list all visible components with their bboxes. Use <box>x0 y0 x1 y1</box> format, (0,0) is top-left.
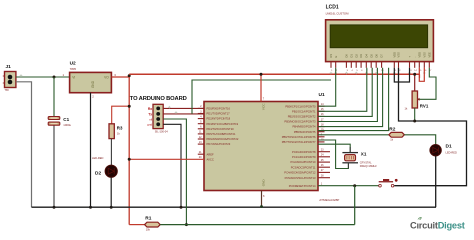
CircuitDigest logo <box>410 217 465 231</box>
resistor R2 <box>389 132 405 141</box>
wire bottom green line <box>160 224 355 226</box>
svg-text:LED-RED: LED-RED <box>92 156 104 160</box>
svg-text:AREF: AREF <box>207 152 215 156</box>
svg-text:C1: C1 <box>63 117 69 122</box>
svg-text:D1: D1 <box>349 54 353 58</box>
svg-text:PB6/TOSC1/XTAL1/PCINT6: PB6/TOSC1/XTAL1/PCINT6 <box>282 135 316 139</box>
svg-text:TBI: TBI <box>5 88 9 92</box>
wire U2 ground pin <box>90 93 92 208</box>
svg-text:FREQ=16MHz: FREQ=16MHz <box>360 164 378 168</box>
svg-text:VDD: VDD <box>417 52 421 58</box>
svg-text:PB7/TOSC2/XTAL2/PCINT7: PB7/TOSC2/XTAL2/PCINT7 <box>282 140 316 144</box>
svg-text:GND: GND <box>261 179 265 187</box>
svg-text:PD3/INT1/OC2B/PCINT19: PD3/INT1/OC2B/PCINT19 <box>207 122 239 126</box>
svg-text:J1: J1 <box>6 64 12 70</box>
svg-text:U1: U1 <box>319 92 325 98</box>
wire LCD VSS run <box>192 80 331 114</box>
LCD1 screen <box>330 25 427 48</box>
LCD pin stubs <box>330 62 332 68</box>
node bus junction x129 <box>128 74 131 77</box>
node D2 on bus <box>110 206 113 209</box>
svg-text:VSS: VSS <box>397 52 401 57</box>
plus ticks on bus <box>330 72 333 74</box>
regulator U2 <box>70 72 112 92</box>
svg-text:PB1/OC1A/PCINT1: PB1/OC1A/PCINT1 <box>292 109 316 113</box>
wire C1 column <box>53 77 55 207</box>
node U2 gnd on bus <box>89 206 92 209</box>
svg-text:VO: VO <box>104 76 109 80</box>
svg-text:10k: 10k <box>146 228 151 232</box>
svg-text:nil: nil <box>149 117 152 121</box>
wire LCD D5 to PB2 <box>318 68 372 117</box>
svg-text:TO ARDUINO BOARD: TO ARDUINO BOARD <box>130 96 187 102</box>
svg-text:PC1/ADC1/PCINT9: PC1/ADC1/PCINT9 <box>292 155 316 159</box>
svg-text:LCD1: LCD1 <box>326 5 339 11</box>
wire LCD RW loop <box>394 68 409 82</box>
svg-text:SIL-100-04: SIL-100-04 <box>155 130 168 134</box>
svg-text:CRYSTAL: CRYSTAL <box>360 160 372 164</box>
node VCC on bus <box>260 73 263 76</box>
LED D1 labels <box>446 144 458 155</box>
svg-text:PD5/T1/OC0B/PCINT21: PD5/T1/OC0B/PCINT21 <box>207 132 236 136</box>
wire rail to R1 <box>129 224 144 226</box>
svg-text:D2: D2 <box>95 171 101 177</box>
wire button to bottom line <box>354 186 356 225</box>
svg-text:R2: R2 <box>389 126 395 132</box>
wire LCD RS to PB5 <box>318 68 389 131</box>
wire LCD D6 to PB3 <box>318 68 377 122</box>
wire R3 branch <box>112 106 130 124</box>
capacitor C1 <box>48 117 71 128</box>
wire R2 to D1 <box>404 135 435 145</box>
svg-text:PD4/T0/XCK/PCINT20: PD4/T0/XCK/PCINT20 <box>207 127 235 131</box>
svg-text:1000u: 1000u <box>63 123 71 127</box>
svg-text:PC0/ADC0/PCINT8: PC0/ADC0/PCINT8 <box>292 150 316 154</box>
svg-text:X1: X1 <box>361 152 367 157</box>
wire LCD backlight black path <box>394 68 466 186</box>
chip U1 body <box>204 102 318 191</box>
svg-text:D6: D6 <box>374 54 378 58</box>
svg-text:R1: R1 <box>145 216 151 222</box>
svg-text:D3: D3 <box>359 54 363 58</box>
wire Tx to PD1 <box>163 113 204 115</box>
svg-text:PD7/AIN1/PCINT23: PD7/AIN1/PCINT23 <box>207 142 231 146</box>
wire D1 cathode to ground <box>435 156 437 207</box>
node RV1 bottom junction <box>413 120 416 123</box>
svg-text:D2: D2 <box>354 54 358 58</box>
svg-text:D7: D7 <box>380 54 384 58</box>
svg-text:PC3/ADC3/PCINT11: PC3/ADC3/PCINT11 <box>291 165 316 169</box>
wire VEE loop to pot <box>418 68 436 100</box>
svg-text:-: - <box>414 57 417 58</box>
svg-text:Rx: Rx <box>148 107 152 111</box>
wire pin3 down <box>163 119 186 225</box>
svg-text:PC6/RESET/PCINT14: PC6/RESET/PCINT14 <box>289 184 316 188</box>
LCD1 labels <box>326 5 350 16</box>
resistor R3 <box>109 124 123 139</box>
potentiometer RV1 <box>405 91 429 111</box>
svg-text:D4: D4 <box>364 54 368 58</box>
connector J2 SIL-100-04 <box>147 104 168 133</box>
svg-text:PB3/MOSI/OC2A/PCINT3: PB3/MOSI/OC2A/PCINT3 <box>284 120 316 124</box>
svg-text:PB5/SCK/PCINT5: PB5/SCK/PCINT5 <box>294 130 316 134</box>
node branch junction <box>128 105 131 108</box>
svg-text:PB0/ICP1/CLKO/PCINT0: PB0/ICP1/CLKO/PCINT0 <box>285 104 316 108</box>
LED D2 <box>105 165 117 177</box>
svg-text:ATMEGA328P: ATMEGA328P <box>319 198 339 202</box>
node bus end <box>419 74 421 78</box>
node GND on bus <box>260 205 263 208</box>
svg-text:U2: U2 <box>70 61 76 67</box>
push button <box>379 179 398 187</box>
svg-text:VSS: VSS <box>422 52 426 57</box>
svg-text:CırcuitDigest: CırcuitDigest <box>410 221 465 231</box>
wire LCD E to PB0 <box>318 68 336 106</box>
svg-text:PD6/AIN0/OC0A/PCINT22: PD6/AIN0/OC0A/PCINT22 <box>207 137 239 141</box>
svg-text:GND: GND <box>91 80 95 88</box>
svg-text:7805: 7805 <box>70 67 77 71</box>
node RV1 on bus <box>413 73 416 76</box>
svg-text:PD1/TXD/PCINT17: PD1/TXD/PCINT17 <box>207 112 231 116</box>
crystal X1 labels <box>360 152 378 169</box>
svg-text:PC5/ADC5/SCL/PCINT13: PC5/ADC5/SCL/PCINT13 <box>285 176 316 180</box>
wire reset to button <box>318 185 379 187</box>
wire RV1 top to bus <box>414 74 416 91</box>
LCD1 body <box>326 20 434 62</box>
svg-text:VI: VI <box>72 76 75 80</box>
node pin4 on ground bus <box>180 206 183 209</box>
svg-text:PD0/RXD/PCINT16: PD0/RXD/PCINT16 <box>207 107 231 111</box>
node button junction <box>353 184 356 187</box>
svg-text:E: E <box>334 56 338 58</box>
wire XTAL2 loop <box>318 140 348 169</box>
LED D1 <box>430 145 441 156</box>
LED D2 labels <box>92 156 104 177</box>
plus tick Rx <box>168 106 171 108</box>
svg-text:RV1: RV1 <box>420 104 429 109</box>
svg-text:Tx: Tx <box>148 112 152 116</box>
svg-text:LED-RED: LED-RED <box>446 150 458 154</box>
wire LCD D7 to PB4 <box>318 68 383 127</box>
chip U1 right pin stubs PB0-PB7 <box>318 105 325 107</box>
plus tick Tx <box>175 112 178 114</box>
wire GND pin <box>261 191 263 208</box>
svg-text:D1: D1 <box>446 144 452 150</box>
wire Rx to PD0 <box>163 107 204 109</box>
node C1 on bus <box>53 206 56 209</box>
svg-text:PB4/MISO/PCINT4: PB4/MISO/PCINT4 <box>293 125 317 129</box>
pin PC6 reset label <box>289 183 323 188</box>
wire RV1 bottom <box>414 108 416 121</box>
crystal X1 <box>342 147 358 168</box>
wire AVCC to rail <box>129 158 204 160</box>
pin AREF stub <box>198 151 204 154</box>
svg-text:PC4/ADC4/SDA/PCINT12: PC4/ADC4/SDA/PCINT12 <box>284 171 316 175</box>
node pin3 on bottom line <box>185 223 188 226</box>
svg-text:PB2/SS/OC1B/PCINT2: PB2/SS/OC1B/PCINT2 <box>288 115 316 119</box>
wire R3 to D2 <box>110 139 112 166</box>
svg-text:D5: D5 <box>369 54 373 58</box>
chip U1 PC pin stubs <box>318 151 330 153</box>
svg-text:LM016L CUSTOM: LM016L CUSTOM <box>326 12 350 16</box>
svg-text:RS: RS <box>329 54 333 58</box>
wire U2 output <box>111 74 129 77</box>
regulator U2 labels <box>70 61 77 72</box>
wire LCD D4 to PB1 <box>318 68 367 112</box>
chip U1 left pin stubs PD0-PD7 <box>198 107 204 109</box>
node AVCC junction <box>128 158 131 161</box>
svg-text:D0: D0 <box>345 54 349 58</box>
svg-text:VDD: VDD <box>392 52 396 58</box>
resistor R1 <box>145 222 161 231</box>
node junction at x54 <box>53 76 56 79</box>
wire D2 cathode <box>110 177 112 207</box>
svg-text:VEE: VEE <box>427 52 431 57</box>
svg-text:PD2/INT0/PCINT18: PD2/INT0/PCINT18 <box>207 117 231 121</box>
connector J1 <box>3 64 16 92</box>
wire VCC pin <box>260 74 262 101</box>
wire XTAL1 <box>318 144 350 152</box>
power bus +5V <box>129 73 419 75</box>
wire LCD VDD to bus end <box>419 68 424 82</box>
svg-text:AVCC: AVCC <box>207 157 214 161</box>
wire pin4 gnd down <box>163 124 181 207</box>
plus tick J1 wire <box>20 75 23 77</box>
svg-text:PC2/ADC2/PCINT10: PC2/ADC2/PCINT10 <box>291 160 316 164</box>
ground bus <box>32 206 437 208</box>
wire PB6 to R2 <box>318 134 389 136</box>
wire red vertical rail <box>128 77 130 225</box>
wire gray J1 pin2 down to ground <box>16 82 32 207</box>
svg-text:VCC: VCC <box>261 103 265 110</box>
wire J1 pin1 to U2 <box>16 76 70 78</box>
svg-text:gnd: gnd <box>147 123 152 127</box>
svg-text:R3: R3 <box>117 125 123 130</box>
